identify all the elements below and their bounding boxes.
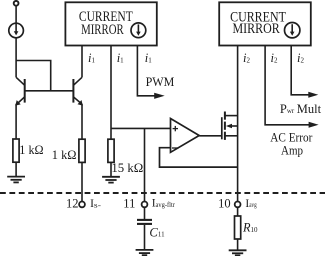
current mirror box U1 — [65, 2, 156, 45]
svg-text:12: 12 — [66, 196, 79, 210]
ground under R1 — [7, 177, 25, 183]
wire op-amp negative feedback — [160, 148, 238, 167]
ground under R3 — [102, 177, 120, 183]
capacitor C11 — [137, 220, 152, 224]
wire current source to node A — [15, 38, 17, 61]
wire base rail — [25, 90, 74, 92]
wire i2 output 2 to AC error amp arrow — [265, 46, 310, 125]
resistor R3 15k — [108, 139, 114, 162]
current mirror U3 circle symbol — [285, 23, 300, 38]
wire op-amp output to gate — [199, 135, 222, 137]
svg-text:MIRROR: MIRROR — [233, 21, 280, 37]
pin 11 circle — [142, 202, 148, 208]
wire R3 to ground — [110, 162, 112, 176]
svg-text:MIRROR: MIRROR — [81, 22, 124, 38]
wire pin 10 to R10 — [237, 207, 239, 216]
wire pin 11 riser — [144, 128, 146, 201]
wire R10 to ground — [237, 239, 239, 250]
terminal T1 (top-left open circle) — [14, 1, 19, 6]
wire i1 output 2 (to 15k node) — [110, 46, 112, 140]
svg-text:PWM: PWM — [146, 75, 175, 89]
svg-text:15 kΩ: 15 kΩ — [111, 161, 143, 175]
transistor Q1 — [15, 61, 24, 106]
svg-text:PwrMult: PwrMult — [280, 102, 322, 116]
wire pin 11 to C11 — [144, 207, 146, 219]
wire R1 to ground — [15, 162, 17, 176]
pin 10 circle — [235, 202, 241, 208]
wire terminal to current source — [15, 6, 17, 23]
ground under R10 — [229, 250, 247, 255]
ground under C11 — [136, 250, 154, 255]
wire Q2 emitter to R2 — [81, 104, 83, 139]
resistor R10 — [235, 216, 241, 239]
transistor Q2 — [73, 46, 82, 106]
wire i1 output 3 and PWM arrow — [137, 46, 154, 96]
current mirror U1 circle symbol — [131, 23, 146, 38]
current mirror box U3 — [219, 2, 311, 45]
svg-text:Amp: Amp — [281, 144, 303, 158]
svg-text:1 kΩ: 1 kΩ — [19, 143, 43, 157]
resistor R1 1k — [13, 139, 19, 162]
current source I1 — [9, 23, 24, 38]
wire Q1 emitter to R1 — [15, 104, 17, 139]
wire C11 to ground — [144, 225, 146, 250]
text CURRENT MIRROR U1 — [79, 9, 133, 38]
wire i2 output 3 to Pwr Mult arrow — [291, 46, 310, 95]
MOSFET Q3 — [222, 112, 238, 140]
dashed IC boundary line — [0, 192, 325, 194]
resistor R2 1k — [79, 139, 85, 162]
text CURRENT MIRROR U3 — [230, 9, 286, 37]
pin 12 circle — [79, 202, 85, 208]
op-amp U2 — [171, 119, 200, 153]
svg-text:1 kΩ: 1 kΩ — [52, 148, 77, 162]
wire op-amp + input line — [111, 127, 171, 129]
wire collector-base tie line — [16, 61, 51, 91]
wire MOSFET drain to mirror U3 and source down to pin 10 — [237, 46, 239, 202]
svg-text:11: 11 — [123, 196, 135, 210]
svg-text:10: 10 — [218, 196, 231, 210]
wire R2 to pin 12 — [81, 162, 83, 201]
